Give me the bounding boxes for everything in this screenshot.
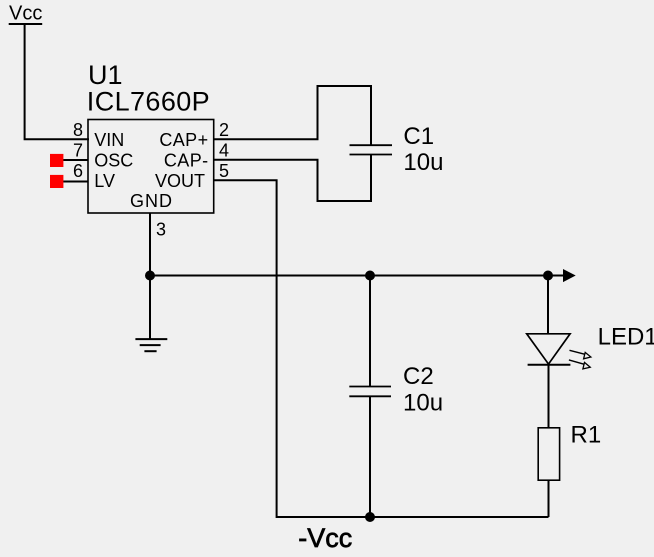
wire -Vcc rail bottom [370, 516, 549, 518]
svg-text:R1: R1 [571, 422, 602, 449]
svg-text:C1: C1 [403, 123, 434, 150]
svg-text:OSC: OSC [94, 150, 133, 170]
svg-text:C2: C2 [403, 363, 434, 390]
capacitor C2 [349, 276, 391, 518]
svg-text:GND: GND [130, 191, 173, 211]
arrow terminal [563, 269, 576, 282]
wire pin 5 VOUT down [214, 180, 371, 517]
svg-text:8: 8 [73, 120, 83, 140]
svg-text:5: 5 [219, 161, 229, 181]
ic U1 body [88, 120, 214, 214]
junction dot at ground node [145, 271, 155, 281]
wire pin 7 stub [62, 159, 88, 161]
svg-text:3: 3 [156, 219, 166, 239]
svg-text:ICL7660P: ICL7660P [87, 87, 210, 117]
wire pin 3 GND down [149, 213, 151, 275]
svg-text:LV: LV [94, 171, 115, 191]
svg-text:CAP-: CAP- [164, 150, 209, 170]
svg-text:LED1: LED1 [598, 324, 654, 351]
svg-text:VOUT: VOUT [155, 171, 205, 191]
svg-text:2: 2 [219, 120, 229, 140]
svg-text:VIN: VIN [94, 130, 124, 150]
ground symbol [135, 276, 167, 352]
power flag Vcc [9, 3, 43, 25]
svg-text:10u: 10u [403, 149, 443, 176]
svg-text:-Vcc: -Vcc [298, 523, 352, 553]
svg-text:4: 4 [219, 141, 229, 161]
svg-text:Vcc: Vcc [9, 3, 42, 25]
svg-text:10u: 10u [403, 389, 443, 416]
wire pin 2 to C1 top [214, 86, 371, 139]
led LED1 [527, 276, 571, 428]
wire pin 6 stub [62, 181, 88, 183]
svg-text:7: 7 [73, 141, 83, 161]
capacitor C1 [350, 85, 393, 202]
wire pin 4 to C1 bottom [214, 160, 371, 201]
light emission arrows of LED1 [569, 350, 591, 369]
no-connect marker pin 7 [50, 154, 63, 167]
svg-text:6: 6 [73, 161, 83, 181]
junction dot at C2 bottom [365, 512, 375, 522]
wire main rail [150, 275, 564, 277]
svg-text:CAP+: CAP+ [159, 130, 208, 150]
resistor R1 [538, 428, 559, 517]
no-connect marker pin 6 [50, 175, 63, 188]
junction dot at LED branch [543, 271, 553, 281]
wire Vcc to pin 8 [25, 23, 89, 139]
junction dot at C2 top [365, 271, 375, 281]
